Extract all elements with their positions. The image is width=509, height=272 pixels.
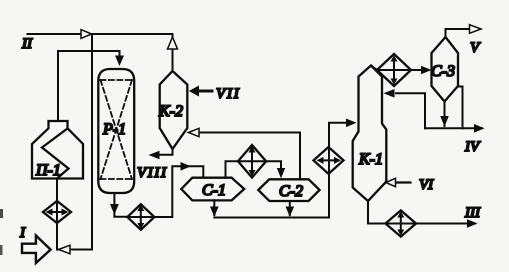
node arrow left VIII — [149, 151, 160, 160]
node flow arrow open right on II line — [81, 30, 92, 39]
heat-exchanger E5 condenser — [377, 54, 411, 86]
reactor Р-1 — [98, 69, 134, 193]
separator С-2 — [258, 179, 319, 201]
furnace П-1 — [32, 121, 83, 179]
wire stream II horizontal — [28, 33, 173, 35]
node arrow down into C-2 — [277, 168, 285, 178]
svg-text:III: III — [464, 205, 481, 221]
node arrow down C-3 bottoms — [440, 116, 449, 127]
E4 through line — [328, 147, 330, 174]
wire riser to K-1 feed — [329, 123, 345, 147]
separator С-3 — [432, 37, 459, 102]
wire recycle vertical x92 — [91, 34, 93, 250]
column К-1 — [353, 66, 387, 202]
E6 inner double arrow — [400, 215, 402, 233]
node arrow into reactor top — [115, 56, 124, 67]
node flow arrow open left bottom — [59, 245, 71, 254]
node arrow right IV — [474, 124, 485, 133]
wire C-3 overhead V — [446, 29, 470, 37]
wire K-1 bottoms — [368, 201, 386, 224]
wire C-3 side outlet — [458, 87, 463, 129]
svg-text:VIII: VIII — [137, 165, 168, 181]
svg-text:II: II — [21, 36, 33, 52]
wire furnace feed vertical x57 — [56, 180, 58, 250]
svg-text:П-1: П-1 — [35, 162, 61, 179]
wire E3 to C-2 feed — [266, 161, 281, 169]
svg-text:К-1: К-1 — [358, 151, 383, 168]
wire E2 to C-1 feed — [154, 166, 203, 217]
node flow arrow open right V — [470, 25, 482, 34]
page-edge speck upper — [0, 209, 3, 218]
E1 inner double arrow — [49, 211, 65, 213]
svg-text:С-1: С-1 — [202, 182, 226, 199]
svg-text:V: V — [470, 40, 481, 56]
wire product IV — [425, 127, 482, 129]
E2 through line — [127, 216, 154, 218]
wire furnace outlet to reactor — [58, 51, 120, 132]
node arrow down reactor outlet — [110, 204, 119, 215]
wire C-1 bottoms down — [213, 200, 215, 215]
furnace coil zigzag — [42, 129, 69, 179]
node arrow right into K-1 — [346, 119, 357, 128]
heat-exchanger E3 between C-1 and C-2 — [238, 145, 266, 178]
wire reflux to K-1 — [396, 93, 425, 128]
E5 through line — [377, 69, 411, 71]
wire C-2 bottoms down — [289, 201, 291, 215]
heat-exchanger E2 below reactor — [127, 204, 154, 230]
svg-text:К-2: К-2 — [158, 103, 183, 120]
wire bottom horizontal to junction — [57, 249, 92, 251]
stream VI inlet — [396, 181, 411, 183]
E2 inner double arrow — [140, 208, 142, 226]
node arrow left reflux — [384, 89, 395, 98]
wire bottoms header to K-1 riser — [214, 174, 329, 218]
separator С-1 — [181, 178, 244, 201]
wire C-1 overhead to E3 — [226, 161, 239, 177]
node flow arrow open left into K-2 — [188, 128, 199, 136]
svg-text:С-3: С-3 — [431, 63, 455, 80]
column К-2 — [160, 71, 188, 149]
wire K-2 bottoms outlet VIII — [158, 149, 173, 155]
stream VII arrow into K-2 — [198, 90, 212, 93]
wire K-1 overhead to E5 — [371, 66, 377, 71]
E4 inner double arrow — [320, 159, 337, 161]
wire C-3 bottoms down — [444, 102, 446, 127]
heat-exchanger E1 below furnace — [43, 201, 71, 223]
node arrow right III — [467, 219, 478, 228]
node arrow right on C-1 feed — [181, 162, 192, 171]
block arrow stream I — [22, 236, 51, 264]
wire K-2 overhead vertical — [172, 34, 174, 71]
E5 inner double arrow — [393, 59, 395, 82]
reactor internals dashed — [101, 80, 133, 179]
svg-text:I: I — [19, 225, 26, 241]
node flow arrow open up on K-2 overhead — [168, 37, 178, 49]
svg-text:IV: IV — [464, 139, 481, 155]
wire K-2 side inlet from C-2 top — [199, 133, 300, 180]
wire E5 to C-3 — [411, 69, 424, 71]
svg-text:VI: VI — [419, 177, 434, 193]
svg-text:Р-1: Р-1 — [102, 121, 126, 138]
heat-exchanger E6 bottoms cooler — [386, 210, 417, 236]
node flow arrow open left VI — [386, 178, 396, 186]
node arrow right into C-3 — [421, 66, 432, 75]
heat-exchanger E4 left of K-1 — [314, 147, 344, 174]
E3 through line — [238, 160, 266, 162]
page-edge speck lower — [0, 245, 3, 255]
node arrow down C-2 bottoms — [286, 207, 295, 217]
svg-text:VII: VII — [216, 86, 241, 102]
wire product III — [416, 223, 475, 225]
E6 through line — [386, 223, 417, 225]
node arrow down C-1 bottoms — [210, 207, 219, 217]
wire reactor bottom outlet — [114, 193, 127, 217]
E3 inner double arrow — [251, 150, 253, 174]
svg-text:С-2: С-2 — [279, 183, 303, 200]
